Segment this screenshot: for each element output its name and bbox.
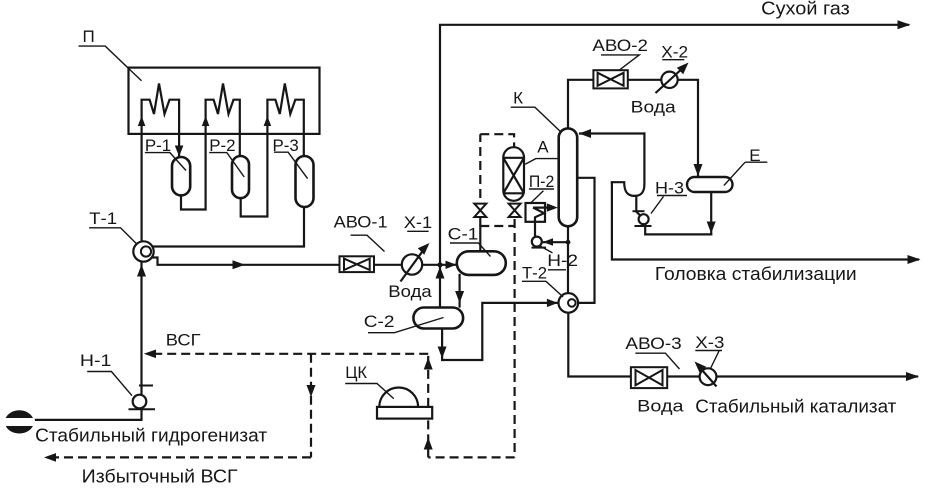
POINTERS: [79, 46, 768, 399]
wire: T-1 top to furnace coil 1 left leg with zigzag, down to P-1 top: [142, 84, 180, 242]
wire: C-2 bottom to T-2 (left feed): [442, 303, 556, 360]
arrow: E bottom down: [707, 222, 716, 234]
arrow: excess ВСГ out: [44, 453, 56, 462]
svg-text:Вода: Вода: [388, 282, 432, 301]
arrow: feed up into T-1: [137, 265, 146, 277]
arrow: coil 2 riser: [202, 116, 210, 126]
arrow: ЦК discharge up: [424, 358, 433, 370]
arrow: ЦК suction up: [424, 438, 433, 450]
svg-text:С-1: С-1: [448, 224, 479, 243]
pointer: К label: [511, 107, 561, 132]
wire: T-1 outlet to ABO-1, X-1, into C-1: [152, 258, 457, 265]
svg-text:Сухой газ: Сухой газ: [761, 0, 850, 18]
arrow: C-2 gas up into junction: [436, 267, 445, 279]
wire: H-3 discharge to E bottom header: [645, 224, 711, 235]
wire: dry gas riser from C-2 top up and out right (Сухой газ): [440, 25, 908, 308]
wire: dashed ЦК discharge riser: [427, 354, 429, 407]
svg-text:Вода: Вода: [631, 98, 677, 117]
pointer: А label to column K: [525, 159, 559, 165]
svg-text:Н-3: Н-3: [655, 179, 684, 198]
reflux drum Е: [687, 177, 733, 192]
pointer: Т-1 label: [89, 228, 136, 244]
pointer: АВО-3 label: [635, 353, 679, 369]
svg-text:Н-1: Н-1: [80, 351, 112, 370]
pointer: П label: [79, 46, 142, 81]
svg-text:Т-2: Т-2: [522, 264, 547, 283]
wire: P-1 bottom loop to furnace coil 2, down to P-2 top: [181, 84, 240, 210]
source tank (feed): [4, 410, 35, 433]
column К: [559, 128, 578, 226]
svg-text:АВО-1: АВО-1: [334, 212, 388, 231]
wire: feed from source tank to H-1 and up to T-1: [34, 262, 142, 420]
reactor Р-2: [232, 156, 249, 198]
wire: U-seal cup and riser to reflux line: [612, 134, 645, 196]
cooler Х-2: [656, 67, 685, 94]
furnace П (box): [129, 68, 320, 134]
wire: C-1 bottom liquid down to C-2: [459, 275, 461, 307]
svg-text:К: К: [513, 88, 523, 107]
pointer: Н-2 label: [541, 246, 567, 269]
separator С-1: [457, 251, 506, 275]
svg-text:Стабильный гидрогенизат: Стабильный гидрогенизат: [35, 426, 267, 446]
wire: K overhead to ABO-2, X-2, down to E: [568, 80, 698, 175]
arrow: П-2 outlet into K: [547, 203, 558, 211]
pointer: АВО-2 label: [601, 55, 639, 70]
pointer: АВО-1 label: [351, 235, 385, 251]
cooler Х-3: [698, 366, 717, 387]
cooler Х-1: [401, 247, 427, 282]
arrow: T-1 outlet mid arrow: [233, 260, 246, 269]
wire: dashed suction header ЦК to A line: [428, 456, 514, 458]
wire: reflux line into K top: [580, 132, 644, 134]
arrow: into C-1: [446, 261, 457, 269]
pump Н-2: [532, 237, 547, 248]
svg-text:Х-3: Х-3: [695, 333, 724, 352]
wire: dashed gas line C-1 top up through valve to corner: [479, 134, 481, 226]
air cooler АВО-2: [593, 70, 627, 88]
arrow: excess branch down: [307, 385, 316, 397]
pointer: Р-2 label: [209, 153, 244, 177]
wire: dashed Избыточный ВСГ header: [45, 456, 311, 458]
arrow: feed into T-2: [547, 299, 558, 307]
arrow: X-1 cooler arrow: [418, 243, 430, 255]
pointer: Х-1 label: [407, 230, 428, 232]
svg-text:Головка стабилизации: Головка стабилизации: [655, 264, 857, 284]
wire: dashed corner to adsorber A top: [480, 134, 514, 147]
arrow: X-3 cooler arrow: [695, 362, 707, 374]
valve (A outlet): [509, 204, 521, 217]
wire: dashed bypass connector: [480, 225, 514, 227]
svg-text:Вода: Вода: [637, 397, 684, 416]
heater П-2: [526, 203, 554, 222]
wire: T-2 bottom to ABO-3, X-3, out right (Стабильный катализат): [568, 313, 917, 377]
pointer: Н-1 label: [87, 372, 132, 396]
svg-text:ЦК: ЦК: [345, 363, 367, 382]
svg-text:Р-3: Р-3: [273, 136, 299, 155]
heat exchanger Т-1: [133, 241, 153, 261]
wire: dashed excess branch down: [310, 354, 312, 458]
arrow: overhead product out: [908, 255, 921, 264]
compressor ЦК: [377, 387, 432, 418]
arrow: into E top: [694, 164, 703, 176]
pump Н-3: [633, 211, 652, 226]
arrow: suction into H-2: [543, 238, 553, 246]
heat exchanger Т-2: [559, 293, 579, 313]
arrow: ВСГ into feed line: [144, 350, 156, 359]
pointer: П-2 label: [529, 189, 554, 203]
separator С-2: [413, 308, 463, 329]
wire: P-2 bottom loop to furnace coil 3, down to P-3 top: [241, 84, 304, 217]
svg-text:АВО-2: АВО-2: [592, 36, 648, 55]
pointer: Х-2 label: [662, 59, 684, 61]
pointer: Х-3 label: [695, 351, 722, 369]
node: K bottom junction: [566, 240, 571, 245]
wire: C-1 top gas stub: [479, 226, 481, 251]
arrow: X-2 cooler arrow: [677, 63, 689, 75]
valve (bypass): [474, 204, 486, 217]
svg-text:Х-1: Х-1: [404, 213, 432, 232]
air cooler АВО-3: [631, 367, 667, 388]
arrow: stable catalyzate out: [906, 372, 919, 381]
svg-text:Избыточный ВСГ: Избыточный ВСГ: [82, 467, 238, 487]
pointer: Р-1 label: [145, 153, 186, 171]
wire: dashed ВСГ recycle header to feed line: [147, 353, 428, 355]
arrow: reflux into K: [579, 129, 591, 138]
node: junction main line / dry gas riser: [437, 262, 442, 267]
svg-text:А: А: [537, 137, 549, 156]
arrow: C-2 bottom down: [438, 347, 447, 359]
arrow: dry gas out: [898, 20, 911, 29]
pointer: Н-3 label: [651, 196, 687, 214]
wire: dashed line A bottom down to suction header: [513, 219, 515, 457]
pointer: С-2 label: [368, 318, 444, 333]
pointer: ЦК label: [345, 384, 394, 399]
wire: K bottom to H-2 junction down into T-2: [567, 226, 569, 293]
svg-text:Н-2: Н-2: [547, 251, 578, 270]
arrow: coil 1 riser: [138, 116, 146, 126]
adsorber А: [503, 147, 524, 201]
arrow: coil 3 riser: [264, 116, 272, 126]
svg-text:П-2: П-2: [529, 172, 554, 191]
wire: P-3 bottom back to T-1: [154, 207, 304, 247]
wire: H-2 suction from K bottom junction: [544, 241, 569, 243]
wire: E bottom drain: [710, 192, 712, 234]
arrow: C-1 liquid into C-2: [455, 291, 464, 303]
air cooler АВО-1: [340, 256, 375, 272]
pointer: Т-2 label: [522, 281, 563, 297]
reactor Р-1: [172, 157, 190, 195]
reactor Р-3: [296, 156, 314, 207]
arrow: into P-1 top: [175, 146, 184, 157]
svg-text:С-2: С-2: [364, 312, 395, 331]
wire: K right side bottoms product down into T-2 right: [577, 178, 594, 303]
pointer: С-1 label: [450, 243, 491, 257]
svg-text:П: П: [83, 27, 95, 46]
svg-text:Стабильный катализат: Стабильный катализат: [695, 396, 896, 416]
svg-text:Е: Е: [749, 146, 760, 165]
pointer: Е label: [724, 162, 767, 185]
svg-text:ВСГ: ВСГ: [166, 331, 201, 350]
svg-text:Т-1: Т-1: [89, 209, 117, 228]
wire: overhead product line (Головка стабилизации): [612, 182, 918, 259]
pump Н-1: [129, 386, 156, 410]
pointer: Р-3 label: [274, 152, 308, 178]
svg-text:Р-1: Р-1: [145, 136, 171, 155]
svg-text:Р-2: Р-2: [209, 136, 235, 155]
svg-text:Х-2: Х-2: [661, 43, 688, 62]
wire: H-2 discharge up to П-2: [534, 222, 536, 237]
wire: dashed ЦК suction riser: [427, 420, 429, 458]
svg-text:АВО-3: АВО-3: [625, 334, 681, 353]
wire: H-3 suction stem from U-seal: [636, 196, 640, 216]
